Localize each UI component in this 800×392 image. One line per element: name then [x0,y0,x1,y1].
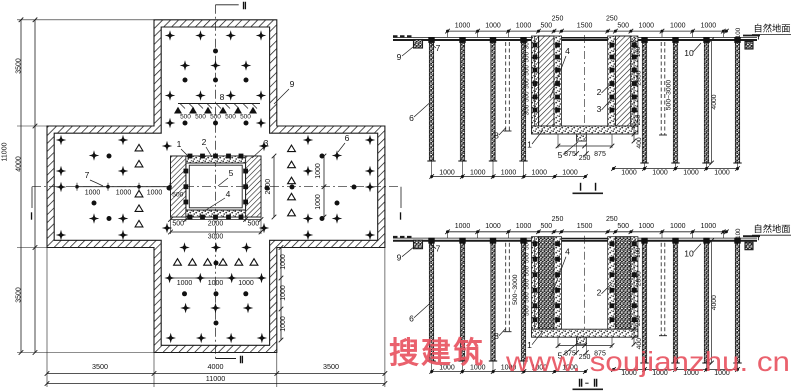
svg-text:Ⅰ: Ⅰ [594,182,597,194]
svg-text:1000: 1000 [455,23,471,30]
plan: bottom arm crosses row 2 [180,303,191,314]
plan: pit outer rect [171,156,262,217]
svg-text:500: 500 [240,114,251,121]
section 1: depth dim chain 100/2850/250/400 [633,40,635,142]
svg-text:1000: 1000 [455,223,471,230]
svg-text:1000: 1000 [485,23,501,30]
section 2: pile length dim 4000 [711,241,713,363]
plan: bottom arm right vertical dims 1000x3 [280,248,282,341]
svg-text:250: 250 [606,216,618,223]
section 2: right guard box [745,242,753,250]
svg-text:1000: 1000 [177,280,193,287]
section 2: right dashed pile [660,243,662,336]
section 1: pit left wall [539,36,554,126]
svg-text:1000: 1000 [280,316,287,332]
svg-text:1: 1 [177,139,182,149]
svg-text:6: 6 [345,133,350,143]
svg-text:Ⅰ: Ⅰ [579,182,582,194]
section 2: pit left wall outer facing [532,237,539,330]
section 2: bottom dim chain left 1000x5 [432,371,586,373]
plan: left dim extension lines [17,19,154,21]
plan: right arm vertical dim 1000/1000 [323,156,325,217]
svg-text:1000: 1000 [652,170,668,177]
section 1: sump pit [577,134,587,141]
svg-text:4000: 4000 [711,94,718,109]
plan: bottom arm dots row [182,291,187,296]
svg-text:1500: 1500 [577,23,593,30]
svg-text:9: 9 [397,253,402,263]
section 2: sump pit [577,337,587,344]
svg-text:4: 4 [565,247,570,257]
section 2: right soldier piles [642,241,646,363]
svg-text:11000: 11000 [2,142,9,161]
section 2: left soldier piles [429,241,433,361]
svg-text:10: 10 [684,249,694,259]
svg-text:4: 4 [565,46,570,56]
section 1: pit centerline [584,35,586,142]
section 1: pit left inner lining [554,36,562,126]
svg-text:1000: 1000 [639,23,655,30]
svg-text:500: 500 [524,239,531,250]
svg-text:500: 500 [524,51,531,62]
svg-text:2: 2 [597,87,602,97]
plan: right arm dots [320,154,325,159]
section 1: pit floor slab [532,126,638,134]
plan: bottom arm crosses row 3 [165,333,176,344]
section 1: left ground-break dashes [393,35,412,38]
svg-text:3500: 3500 [16,287,23,303]
svg-text:8: 8 [494,331,499,341]
plan: anchors around pit edges [188,154,193,159]
section 1: right soldier piles [642,40,646,163]
svg-text:www. soujianzhu. cn: www. soujianzhu. cn [505,346,790,377]
svg-text:1000: 1000 [470,170,486,177]
svg-text:1000: 1000 [670,23,686,30]
svg-text:Ⅱ: Ⅱ [578,378,583,390]
svg-text:1000: 1000 [639,223,655,230]
svg-text:500: 500 [172,221,184,228]
svg-text:3500: 3500 [323,362,339,371]
plan: left arm dots [107,154,112,159]
svg-text:250: 250 [635,315,642,326]
svg-text:7: 7 [436,43,441,53]
plan: pit left wall block hatched [171,156,186,217]
section 1: right flag natural ground [743,35,760,37]
plan: bottom dim chain 11000 [47,383,385,385]
svg-text:1000: 1000 [315,194,322,210]
section 1: right dashed pile [660,42,662,135]
svg-text:250: 250 [552,16,564,23]
svg-text:1000: 1000 [714,170,730,177]
plan: top arm center dot [213,49,218,54]
plan: top arm dots above pit [183,121,188,126]
plan: dots at pit sides [167,186,172,191]
svg-text:1000: 1000 [670,223,686,230]
plan: pit right vertical dim 2000 [273,156,275,217]
svg-text:100: 100 [635,46,642,57]
svg-text:2850: 2850 [636,271,643,286]
section 1: anchor spacing dims [534,36,536,126]
section 1: ground line [393,39,757,41]
svg-text:3000: 3000 [208,234,224,241]
svg-text:4000: 4000 [16,156,23,172]
svg-text:2: 2 [597,288,602,298]
svg-text:8: 8 [494,131,499,141]
section 2: top dim chain [447,231,727,233]
plan: crosses at pit corners [162,141,173,152]
svg-text:1000: 1000 [238,280,254,287]
section 2: pit right wall [615,237,630,330]
svg-text:500~3000: 500~3000 [666,80,673,111]
plan: left arm pile crosses [56,135,67,146]
svg-text:300: 300 [524,104,531,115]
section 2: pit top beam line [562,238,608,240]
svg-text:500: 500 [617,23,629,30]
svg-text:1000: 1000 [315,163,322,179]
plan: right arm pile crosses [365,135,376,146]
svg-text:9: 9 [290,79,295,89]
plan: top arm pile crosses row 3 [165,90,176,101]
plan: cross-shaped retaining wall outline with hatch [47,20,385,353]
svg-text:Ⅱ: Ⅱ [242,1,247,12]
svg-text:10: 10 [684,48,694,58]
svg-text:6: 6 [409,314,414,324]
svg-text:250: 250 [635,114,642,125]
svg-text:500: 500 [180,114,191,121]
svg-text:2: 2 [202,137,207,147]
svg-text:1000: 1000 [621,170,637,177]
svg-text:1000: 1000 [683,170,699,177]
section 1: left guard box [414,40,423,49]
svg-text:6: 6 [409,113,414,123]
section 2: dim 875/875 under pit [558,345,612,347]
section 2: pit left wall [539,237,554,330]
section 1: left soldier piles [429,40,433,161]
svg-text:1000: 1000 [562,170,578,177]
svg-text:300: 300 [524,38,531,49]
svg-text:1000: 1000 [532,170,548,177]
svg-text:1000: 1000 [701,23,717,30]
svg-text:1000: 1000 [701,223,717,230]
section 2: left guard box [414,240,423,249]
svg-text:250: 250 [552,216,564,223]
svg-text:5: 5 [558,150,563,160]
section 2: pit left inner lining [554,237,562,330]
svg-text:500: 500 [195,114,206,121]
svg-text:1000: 1000 [516,23,532,30]
plan: bottom arm crosses row 1 [179,242,190,253]
svg-text:Ⅰ: Ⅰ [30,212,33,223]
svg-text:875: 875 [564,151,576,158]
section 1: pit left wall outer facing [532,36,539,126]
section 1: right guard box [745,42,753,50]
svg-text:自然地面: 自然地面 [753,223,790,234]
section 1: bottom dim chain right 1000x4 [614,168,738,170]
svg-text:500: 500 [524,91,531,102]
section 2: pit floor slab [532,329,638,337]
svg-text:4000: 4000 [208,362,224,371]
svg-text:1000: 1000 [208,280,224,287]
svg-text:Ⅱ: Ⅱ [593,378,598,390]
plan: bottom dim extension lines [46,248,48,388]
svg-text:1: 1 [527,140,532,150]
plan: pit bottom dim 500/2000/500 [171,219,262,221]
svg-text:500: 500 [617,223,629,230]
svg-text:250: 250 [579,155,591,162]
svg-text:Ⅰ: Ⅰ [399,212,402,223]
plan: bottom arm dim 1000x3 [170,277,262,279]
svg-text:2000: 2000 [208,221,224,228]
svg-text:自然地面: 自然地面 [753,23,790,34]
svg-text:500: 500 [524,305,531,316]
svg-text:500: 500 [247,221,259,228]
svg-text:1000: 1000 [147,190,163,197]
svg-text:3500: 3500 [16,58,23,74]
section 2: anchor spacing dims [534,237,536,330]
svg-text:2850: 2850 [636,70,643,85]
section 1: pit right wall [615,36,630,126]
section 1: left anchor dashed pile [505,42,507,131]
svg-text:4: 4 [226,189,231,199]
section 1: pit right inner lining [608,36,616,126]
plan: section cut mark II bottom [216,358,237,360]
svg-text:500: 500 [524,292,531,303]
plan: horizontal centerline of section I-I [32,186,401,188]
svg-text:875: 875 [594,151,606,158]
svg-text:500: 500 [524,78,531,89]
svg-text:1000: 1000 [501,170,517,177]
plan: top arm pile crosses row 2 [180,60,191,71]
svg-text:500~3000: 500~3000 [512,274,519,305]
svg-text:Ⅱ: Ⅱ [239,355,244,366]
svg-text:7: 7 [85,170,90,180]
svg-text:1500: 1500 [577,223,593,230]
svg-text:100: 100 [735,228,742,239]
svg-text:11000: 11000 [206,374,225,383]
plan: right arm triangle column [288,145,296,152]
svg-text:500: 500 [524,65,531,76]
svg-text:500: 500 [524,279,531,290]
svg-text:250: 250 [606,16,618,23]
section 2: bottom dim chain right 1000x4 [614,369,738,371]
plan: bottom arm triangle row [174,259,182,266]
plan: section cut mark I left [31,187,33,208]
svg-text:5: 5 [229,168,234,178]
section 1: top dim chain [447,30,727,32]
plan: pit inner opening [186,163,246,210]
svg-text:4000: 4000 [711,295,718,310]
svg-text:1000: 1000 [439,170,455,177]
plan: left arm dim 1000x3 on centerline [77,186,170,188]
svg-text:3500: 3500 [92,362,108,371]
plan: pit top concrete band [186,156,246,163]
section 1: pit right wall outer facing [631,36,638,126]
svg-text:8: 8 [220,92,225,102]
svg-text:100: 100 [735,27,742,38]
svg-text:100: 100 [635,247,642,258]
plan: top arm crosses above pit [165,118,176,129]
section 2: left anchor dashed pile [505,243,507,332]
plan: left dim chain 3500/4000/3500 [34,20,36,353]
svg-text:1000: 1000 [116,190,132,197]
plan: top arm anchor row filled triangles [174,107,182,114]
section 2: wall tieback anchors [555,241,560,246]
svg-text:500: 500 [540,223,552,230]
section 2: right flag natural ground [743,235,760,237]
watermark soujianzhu.cn [389,336,790,377]
plan: left arm triangle column [135,144,143,151]
svg-text:搜建筑: 搜建筑 [389,336,485,370]
svg-text:500: 500 [540,23,552,30]
section 2: pit right inner lining [608,237,616,330]
plan: top arm dots row [183,78,188,83]
svg-text:1000: 1000 [85,190,101,197]
plan: pit right wall block hatched [246,156,261,217]
section 2: depth dim chain 100/2850/250/400 [633,241,635,346]
section 2: pit centerline [584,236,586,346]
svg-text:7: 7 [436,244,441,254]
svg-text:500: 500 [225,114,236,121]
plan: top arm pile crosses row 1 [165,30,176,41]
plan: section cut mark I right [400,187,402,208]
svg-text:1000: 1000 [280,254,287,270]
svg-text:500: 500 [172,192,184,199]
plan: pit bottom dim 3000 [171,231,262,233]
svg-text:1000: 1000 [516,223,532,230]
svg-text:500: 500 [524,252,531,263]
plan: section cut mark II top [216,4,239,6]
section 1: dim 875/875 under pit [558,145,612,147]
section 2: pit right wall outer facing [631,237,638,330]
svg-text:9: 9 [397,52,402,62]
plan: bottom dim chain 3500/4000/3500 [47,373,385,375]
plan: pit inner square [189,165,242,208]
plan: left dim chain 11000 [20,20,22,353]
svg-text:3: 3 [597,104,602,114]
section 2: left ground-break dashes [393,236,412,239]
svg-text:500: 500 [524,265,531,276]
section 1: bottom dim chain left 1000x5 [432,176,586,178]
section 2: ground line [393,240,757,242]
section 1: pit top beam line [562,37,608,39]
section 1: wall tieback anchors [555,43,560,48]
plan: vertical centerline of section II-II [215,5,217,359]
svg-text:500: 500 [210,114,221,121]
plan: pit bottom concrete band [186,210,246,217]
svg-text:1000: 1000 [280,285,287,301]
svg-text:1000: 1000 [485,223,501,230]
section 1: pile length dim 4000 [711,40,713,163]
